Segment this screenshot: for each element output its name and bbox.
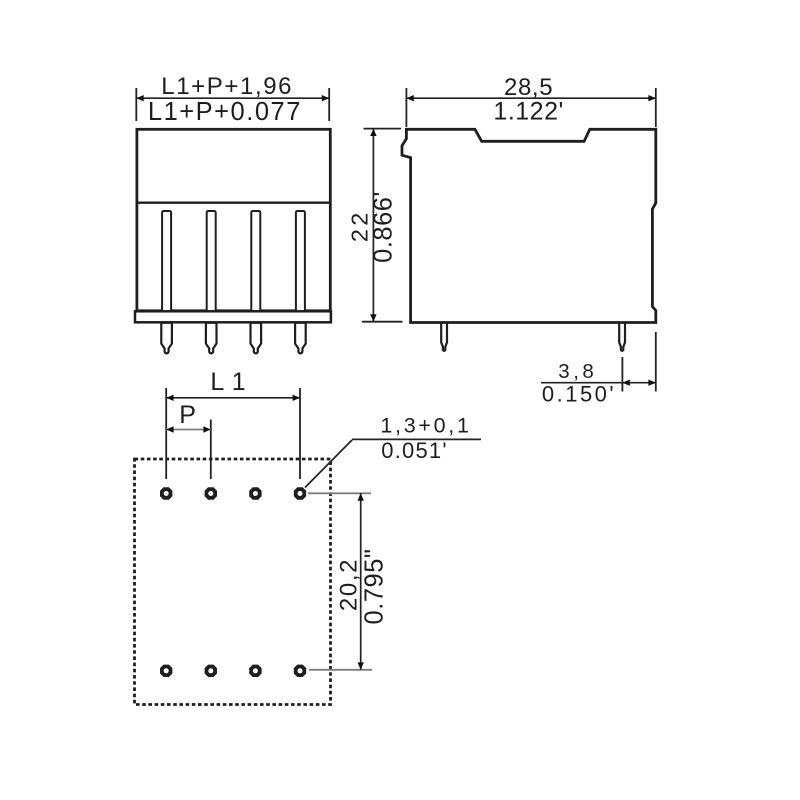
svg-text:L1+P+1,96: L1+P+1,96 <box>161 73 293 100</box>
svg-text:L1: L1 <box>210 368 253 396</box>
svg-text:1.122': 1.122' <box>493 98 563 126</box>
svg-text:3,8: 3,8 <box>558 360 597 383</box>
svg-text:0.795": 0.795" <box>361 549 389 625</box>
svg-text:P: P <box>179 401 196 429</box>
svg-text:1,3+0,1: 1,3+0,1 <box>380 414 471 438</box>
svg-text:0.150': 0.150' <box>542 382 616 407</box>
svg-text:L1+P+0.077: L1+P+0.077 <box>148 98 302 126</box>
svg-text:20,2: 20,2 <box>335 558 362 611</box>
svg-text:0.866': 0.866' <box>370 191 398 263</box>
svg-text:0.051': 0.051' <box>381 438 447 463</box>
